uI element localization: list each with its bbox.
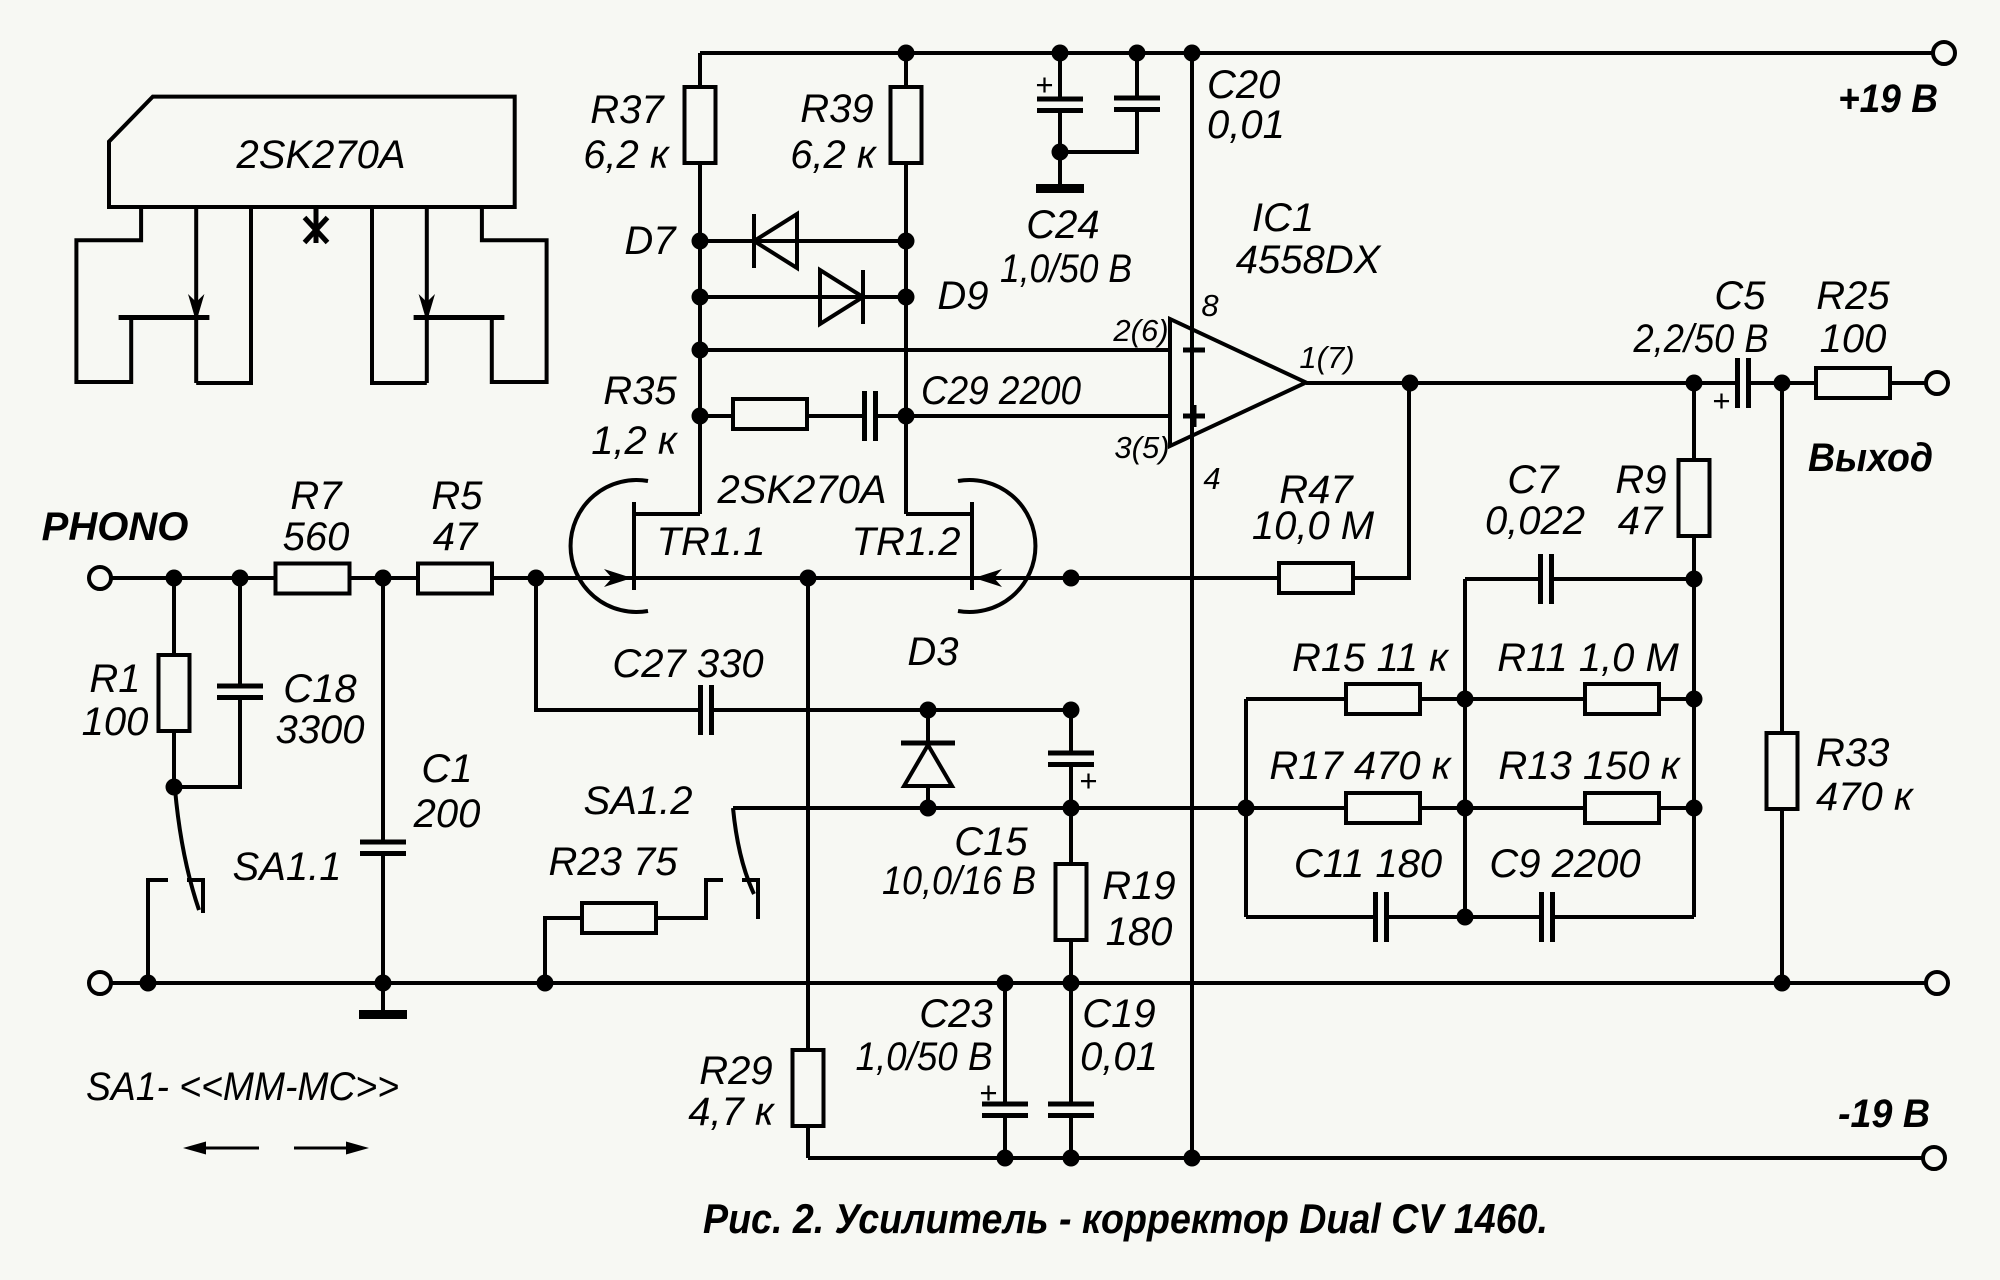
- svg-text:R39: R39: [800, 87, 873, 131]
- IC package 2SK270A outline: [109, 97, 515, 207]
- junction rail C19: [1063, 975, 1080, 992]
- label R19: [1102, 864, 1175, 954]
- svg-text:D7: D7: [624, 219, 677, 263]
- svg-text:C5: C5: [1714, 274, 1766, 318]
- svg-text:470 к: 470 к: [1816, 775, 1915, 819]
- label R37: [583, 88, 671, 177]
- junction R35 left: [692, 408, 709, 425]
- svg-text:1,0/50 В: 1,0/50 В: [1000, 247, 1132, 291]
- IC package left fork pin 1: [76, 207, 141, 382]
- svg-text:PHONO: PHONO: [42, 505, 189, 549]
- junction D7 right: [898, 233, 915, 250]
- terminal ground input: [89, 972, 111, 994]
- junction rail C23: [997, 975, 1014, 992]
- junction rail R23: [537, 975, 554, 992]
- junction rail C1: [375, 975, 392, 992]
- junction C27 C15: [1063, 702, 1080, 719]
- svg-text:SA1- <<ММ-МС>>: SA1- <<ММ-МС>>: [86, 1065, 399, 1109]
- junction RC right R13: [1686, 800, 1703, 817]
- label R1: [82, 657, 149, 744]
- diode D9: [820, 270, 863, 324]
- svg-text:+: +: [1079, 763, 1097, 798]
- capacitor C9: [1465, 892, 1694, 942]
- wire R35/C29 row: [700, 414, 864, 418]
- resistor R25: [1816, 368, 1890, 398]
- terminal -19V: [1923, 1147, 1945, 1169]
- junction RC center C11: [1457, 909, 1474, 926]
- wire feedback row y=808: [733, 806, 1246, 810]
- svg-text:2SK270A: 2SK270A: [716, 468, 886, 512]
- switch SA1.1 fixed bracket: [148, 880, 168, 983]
- wire ground rail: [111, 981, 1926, 985]
- label C5: [1633, 274, 1769, 361]
- svg-text:D9: D9: [937, 274, 988, 318]
- resistor R35: [733, 399, 807, 429]
- svg-text:R33: R33: [1816, 731, 1889, 775]
- label R33: [1816, 731, 1915, 819]
- svg-text:R7: R7: [290, 474, 343, 518]
- switch SA1.2 lever: [733, 808, 754, 894]
- junction D9 right: [898, 289, 915, 306]
- svg-text:+: +: [979, 1075, 997, 1110]
- resistor R33: [1767, 383, 1798, 983]
- junction -19V C19: [1063, 1150, 1080, 1167]
- junction rail SA1.1: [140, 975, 157, 992]
- capacitor C19: [1048, 983, 1094, 1158]
- resistor R5: [418, 564, 492, 594]
- junction top rail R39: [898, 45, 915, 62]
- switch SA1.2 contact hook: [742, 880, 758, 919]
- svg-text:C19: C19: [1082, 992, 1155, 1036]
- junction top rail C24: [1052, 45, 1069, 62]
- op-amp IC1 triangle: [1170, 319, 1306, 446]
- capacitor C29: [865, 391, 876, 441]
- svg-text:100: 100: [1820, 317, 1887, 361]
- switch SA1.1 lever: [175, 789, 199, 910]
- svg-text:TR1.1: TR1.1: [657, 520, 766, 564]
- op-amp minus sign: [1183, 348, 1205, 353]
- resistor R29: [793, 1050, 824, 1126]
- junction TR sources: [800, 570, 817, 587]
- svg-text:+: +: [1712, 383, 1730, 418]
- switch direction arrow right: [294, 1142, 369, 1155]
- label R35: [591, 369, 679, 463]
- junction C18 top: [232, 570, 249, 587]
- terminal PHONO input: [89, 567, 111, 589]
- svg-text:4558DX: 4558DX: [1236, 238, 1382, 282]
- capacitor C20: [1060, 53, 1160, 152]
- label C23: [856, 992, 993, 1079]
- capacitor C24: [1037, 53, 1083, 184]
- junction C27 D3: [920, 702, 937, 719]
- wire R1 column: [172, 578, 176, 787]
- svg-text:+: +: [1035, 67, 1053, 102]
- capacitor C1: [360, 842, 406, 854]
- wire C29 to op-amp +: [876, 414, 1171, 418]
- svg-text:R17 470 к: R17 470 к: [1269, 744, 1452, 788]
- svg-text:C27 330: C27 330: [612, 642, 763, 686]
- IC package substrate mark: [305, 207, 328, 243]
- svg-text:C7: C7: [1507, 458, 1560, 502]
- svg-text:1,0/50 В: 1,0/50 В: [856, 1035, 993, 1079]
- junction R1 top: [166, 570, 183, 587]
- label C18: [276, 667, 365, 752]
- junction top rail IC column: [1184, 45, 1201, 62]
- wire D7 row: [700, 239, 906, 243]
- switch SA1.1 contact hook: [187, 880, 203, 913]
- label C19: [1080, 992, 1158, 1079]
- transistor TR1.1 gate arrow: [604, 569, 632, 587]
- label C24: [1000, 203, 1132, 291]
- wire RC network center column: [1463, 579, 1467, 917]
- svg-text:C24: C24: [1026, 203, 1099, 247]
- wire inverting input row: [700, 348, 1170, 352]
- wire C27 branch: [536, 578, 1071, 710]
- capacitor C11: [1246, 892, 1465, 942]
- transistor TR1.2 channel bar: [970, 502, 974, 590]
- IC package left source bar: [119, 315, 210, 320]
- svg-text:6,2 к: 6,2 к: [583, 133, 671, 177]
- resistor R17: [1246, 793, 1465, 823]
- svg-text:C9 2200: C9 2200: [1489, 842, 1640, 886]
- transistor TR1.1 envelope arc: [571, 480, 648, 612]
- svg-text:10,0 М: 10,0 М: [1252, 504, 1375, 548]
- ground symbol below C1: [359, 1010, 407, 1019]
- svg-text:R9: R9: [1615, 458, 1666, 502]
- terminal ground right: [1926, 972, 1948, 994]
- wire C18 column: [174, 578, 240, 787]
- IC package right source bar: [414, 315, 505, 320]
- svg-text:2(6): 2(6): [1112, 313, 1168, 348]
- label C15: [882, 820, 1036, 903]
- junction C5 right: [1774, 375, 1791, 392]
- junction RC center R15: [1457, 691, 1474, 708]
- label C20: [1207, 63, 1285, 147]
- transistor TR1.2 envelope arc: [958, 480, 1035, 612]
- junction RC center R17: [1457, 800, 1474, 817]
- junction C1 top: [375, 570, 392, 587]
- diode D3: [901, 710, 955, 808]
- wire R37 column x=700: [698, 53, 702, 514]
- junction C24/C20 bottom: [1052, 144, 1069, 161]
- junction D9 left: [692, 289, 709, 306]
- svg-text:180: 180: [1106, 910, 1173, 954]
- svg-text:4,7 к: 4,7 к: [688, 1090, 776, 1134]
- svg-text:TR1.2: TR1.2: [852, 520, 961, 564]
- junction top rail C20: [1129, 45, 1146, 62]
- svg-text:R11 1,0 М: R11 1,0 М: [1497, 636, 1679, 680]
- terminal +19V: [1933, 42, 1955, 64]
- wire RC network right column: [1692, 579, 1696, 917]
- resistor R37: [685, 87, 716, 163]
- wire +19V top rail: [700, 51, 1933, 55]
- junction output node: [1402, 375, 1419, 392]
- svg-text:4: 4: [1203, 461, 1220, 496]
- svg-text:SA1.2: SA1.2: [584, 779, 693, 823]
- svg-text:IC1: IC1: [1252, 196, 1314, 240]
- svg-text:R25: R25: [1816, 274, 1890, 318]
- label R47: [1252, 468, 1375, 548]
- wire IC power column: [1190, 53, 1194, 1158]
- svg-text:10,0/16 В: 10,0/16 В: [882, 859, 1036, 903]
- capacitor C23: [982, 983, 1028, 1158]
- wire sources column x=808 to R29: [806, 578, 810, 1052]
- resistor R47: [1071, 383, 1409, 593]
- junction R1 bottom: [166, 779, 183, 796]
- junction -19V IC: [1184, 1150, 1201, 1167]
- transistor TR1.2 gate arrow: [974, 569, 1002, 587]
- svg-text:8: 8: [1201, 288, 1219, 323]
- resistor R13: [1465, 793, 1694, 823]
- wire C1 column: [381, 578, 385, 1010]
- resistor R23: [545, 880, 723, 983]
- svg-text:0,022: 0,022: [1485, 499, 1585, 543]
- junction -19V C23: [997, 1150, 1014, 1167]
- svg-text:C20: C20: [1207, 63, 1280, 107]
- IC package right gate arrow lead: [419, 207, 435, 383]
- transistor TR1.1 channel bar: [632, 502, 636, 590]
- svg-text:560: 560: [283, 515, 350, 559]
- IC package right fork pin 6: [482, 207, 547, 382]
- svg-text:0,01: 0,01: [1207, 103, 1285, 147]
- wire -19V rail: [808, 1156, 1923, 1160]
- svg-text:R13 150 к: R13 150 к: [1498, 744, 1681, 788]
- resistor R11: [1465, 684, 1694, 714]
- resistor R15: [1246, 684, 1465, 714]
- svg-text:200: 200: [413, 792, 481, 836]
- label R7: [283, 474, 350, 559]
- wire RC network left column: [1244, 699, 1248, 917]
- wire D9 row: [700, 295, 906, 299]
- label R5: [431, 474, 483, 559]
- wire R39 column x=906: [904, 53, 908, 514]
- svg-text:2,2/50 В: 2,2/50 В: [1633, 317, 1769, 361]
- svg-text:SA1.1: SA1.1: [233, 845, 342, 889]
- switch direction arrow left: [183, 1142, 259, 1155]
- svg-text:6,2 к: 6,2 к: [790, 133, 878, 177]
- capacitor C15: [1048, 710, 1094, 808]
- junction TR1.2 gate: [1063, 570, 1080, 587]
- svg-text:Рис. 2. Усилитель - корректор: Рис. 2. Усилитель - корректор Dual CV 14…: [703, 1195, 1548, 1242]
- label C1: [413, 747, 481, 836]
- svg-text:3300: 3300: [276, 708, 365, 752]
- svg-text:1(7): 1(7): [1299, 340, 1354, 375]
- svg-text:R19: R19: [1102, 864, 1175, 908]
- svg-text:-19 В: -19 В: [1838, 1092, 1930, 1136]
- svg-text:R23 75: R23 75: [549, 840, 679, 884]
- svg-text:C18: C18: [283, 667, 357, 711]
- label C7: [1485, 458, 1585, 543]
- junction RC left column: [1238, 800, 1255, 817]
- svg-text:R37: R37: [590, 88, 665, 132]
- svg-text:47: 47: [1618, 499, 1664, 543]
- junction D7 left: [692, 233, 709, 250]
- label IC1: [1236, 196, 1382, 282]
- wire TR1.1 drain lead: [634, 512, 700, 516]
- junction R5 right: [528, 570, 545, 587]
- svg-text:1,2 к: 1,2 к: [591, 419, 679, 463]
- resistor R19: [1056, 808, 1087, 983]
- capacitor C7: [1465, 554, 1694, 604]
- terminal output: [1926, 372, 1948, 394]
- svg-text:100: 100: [82, 700, 149, 744]
- IC package right fork pin 4: [372, 207, 427, 383]
- capacitor C5: [1738, 358, 1749, 408]
- resistor R9: [1679, 383, 1710, 579]
- svg-text:47: 47: [433, 515, 479, 559]
- capacitor C27: [701, 685, 712, 735]
- label R9: [1615, 458, 1666, 543]
- junction C7 right: [1686, 571, 1703, 588]
- svg-text:2SK270A: 2SK270A: [235, 133, 405, 177]
- wire op-amp output row: [1306, 381, 1926, 385]
- IC package left gate arrow lead: [188, 207, 204, 383]
- svg-text:C11 180: C11 180: [1294, 842, 1442, 886]
- svg-text:D3: D3: [907, 630, 958, 674]
- svg-text:C23: C23: [919, 992, 992, 1036]
- resistor R39: [891, 87, 922, 163]
- wire R29 to -19V rail: [806, 1126, 810, 1158]
- junction C29 right: [898, 408, 915, 425]
- IC package left fork pin 3: [196, 207, 251, 383]
- wire input/gate row: [111, 576, 1071, 580]
- ground symbol below C24: [1036, 184, 1084, 193]
- svg-text:C29 2200: C29 2200: [921, 369, 1081, 413]
- junction minus row: [692, 342, 709, 359]
- svg-text:Выход: Выход: [1808, 436, 1933, 480]
- svg-text:C15: C15: [954, 820, 1028, 864]
- resistor R1: [159, 655, 190, 731]
- svg-text:0,01: 0,01: [1080, 1035, 1158, 1079]
- svg-text:+19 В: +19 В: [1838, 77, 1938, 121]
- resistor R7: [276, 564, 350, 594]
- diode D7: [754, 214, 797, 268]
- junction D3 bottom: [920, 800, 937, 817]
- svg-text:R15 11 к: R15 11 к: [1292, 636, 1450, 680]
- svg-text:R29: R29: [699, 1049, 772, 1093]
- label R25: [1816, 274, 1890, 361]
- junction RC right R11: [1686, 691, 1703, 708]
- svg-text:3(5): 3(5): [1114, 430, 1169, 465]
- svg-text:R5: R5: [431, 474, 483, 518]
- svg-text:R35: R35: [603, 369, 677, 413]
- label R39: [790, 87, 878, 177]
- svg-text:C1: C1: [421, 747, 472, 791]
- wire TR1.2 drain lead: [906, 512, 972, 516]
- op-amp plus sign: [1183, 405, 1205, 427]
- junction rail R33: [1774, 975, 1791, 992]
- junction C5 left: [1686, 375, 1703, 392]
- label R29: [688, 1049, 776, 1134]
- capacitor C18: [217, 686, 263, 698]
- svg-text:R1: R1: [89, 657, 140, 701]
- junction C15 bottom: [1063, 800, 1080, 817]
